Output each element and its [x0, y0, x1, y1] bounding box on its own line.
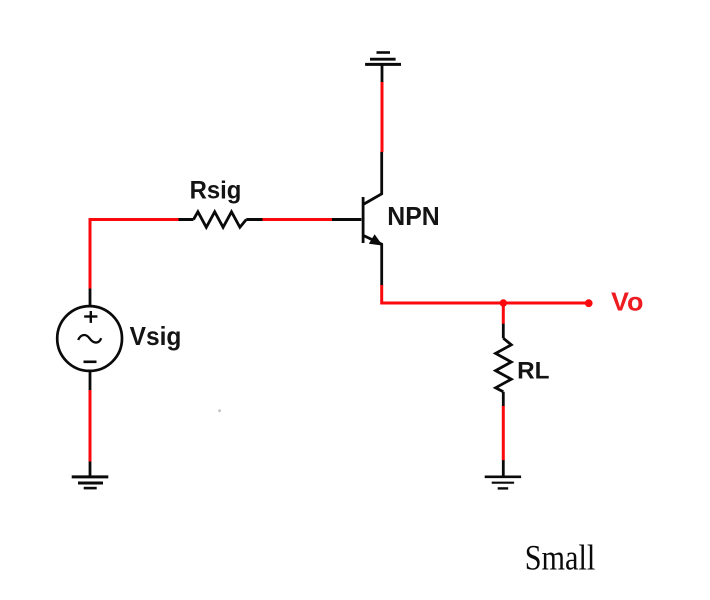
svg-text:Rsig: Rsig [190, 176, 242, 204]
svg-text:RL: RL [517, 358, 549, 385]
svg-text:Small: Small [525, 538, 596, 578]
svg-text:Vo: Vo [611, 286, 643, 316]
svg-text:Vsig: Vsig [130, 321, 182, 351]
svg-text:NPN: NPN [387, 201, 439, 231]
